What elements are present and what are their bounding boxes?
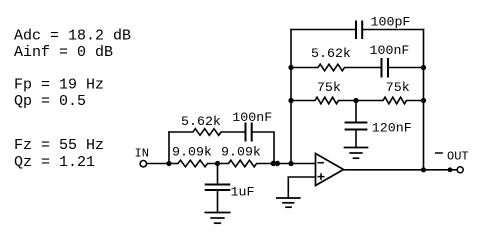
- svg-text:Qp = 0.5: Qp = 0.5: [14, 93, 86, 110]
- node right rail / 5.62k branch: [421, 65, 426, 70]
- wire left feedback rail: [290, 30, 292, 164]
- wire IN to node N1: [147, 163, 169, 165]
- node N3 (double junction dot): [271, 161, 276, 166]
- svg-text:Qz = 1.21: Qz = 1.21: [14, 154, 95, 171]
- capacitor 120nF: [355, 101, 357, 123]
- svg-text:120nF: 120nF: [372, 121, 412, 136]
- resistor 75k (left): [291, 97, 356, 104]
- wire top branch left: [291, 29, 356, 31]
- IN terminal: [140, 161, 146, 167]
- wire op-amp plus input to ground: [288, 177, 315, 198]
- node right rail / 75k branch: [421, 98, 426, 103]
- resistor 9.09k (right): [218, 160, 273, 167]
- svg-text:Fp = 19 Hz: Fp = 19 Hz: [14, 77, 104, 94]
- svg-text:Fz = 55 Hz: Fz = 55 Hz: [14, 137, 104, 154]
- capacitor 100nF (feedback): [381, 59, 383, 77]
- svg-text:OUT: OUT: [447, 150, 469, 164]
- svg-text:75k: 75k: [317, 80, 341, 95]
- op-amp plus symbol: [318, 176, 324, 178]
- svg-text:5.62k: 5.62k: [181, 114, 221, 129]
- wire top branch right: [362, 29, 423, 31]
- svg-text:75k: 75k: [386, 80, 410, 95]
- node N1: [166, 161, 171, 166]
- wire 100nF to right rail: [388, 67, 424, 69]
- capacitor 100nF (bridge): [245, 124, 247, 141]
- svg-text:100nF: 100nF: [370, 43, 410, 58]
- op-amp U1: [316, 154, 344, 186]
- node left rail / 5.62k branch: [288, 65, 293, 70]
- svg-text:5.62k: 5.62k: [311, 46, 351, 61]
- label minus sign before OUT: [436, 152, 442, 154]
- svg-text:100nF: 100nF: [232, 110, 272, 125]
- ground (below 120nF): [345, 148, 368, 159]
- node junction left rail on input rail: [288, 161, 293, 166]
- resistor 5.62k (feedback): [291, 64, 382, 71]
- svg-text:1uF: 1uF: [231, 185, 255, 200]
- ground (op-amp plus input): [277, 198, 300, 207]
- wire N3 to op-amp minus input: [272, 163, 316, 165]
- svg-text:IN: IN: [135, 147, 149, 161]
- node left rail / 75k branch: [288, 98, 293, 103]
- op-amp minus symbol: [318, 162, 323, 164]
- resistor 5.62k (bridge): [169, 129, 245, 136]
- node dot before OUT terminal: [448, 167, 453, 172]
- wire bridge down to node N3: [252, 132, 274, 164]
- wire op-amp output: [344, 169, 457, 171]
- svg-text:9.09k: 9.09k: [172, 145, 212, 160]
- wire right feedback rail: [423, 30, 425, 170]
- resistor 75k (right): [356, 97, 424, 104]
- node N2: [215, 161, 220, 166]
- node M: [353, 98, 358, 103]
- OUT terminal: [457, 167, 463, 173]
- ground (below 1uF): [205, 213, 229, 224]
- node output / right rail junction: [421, 167, 426, 172]
- svg-text:Adc = 18.2 dB: Adc = 18.2 dB: [14, 28, 131, 45]
- svg-text:100pF: 100pF: [371, 15, 411, 30]
- svg-text:Ainf = 0 dB: Ainf = 0 dB: [14, 44, 113, 61]
- wire N1 up to bridge: [168, 132, 170, 164]
- resistor 9.09k (left): [169, 160, 218, 167]
- capacitor 1uF: [217, 164, 219, 185]
- svg-text:9.09k: 9.09k: [221, 145, 261, 160]
- capacitor 100pF: [355, 22, 357, 39]
